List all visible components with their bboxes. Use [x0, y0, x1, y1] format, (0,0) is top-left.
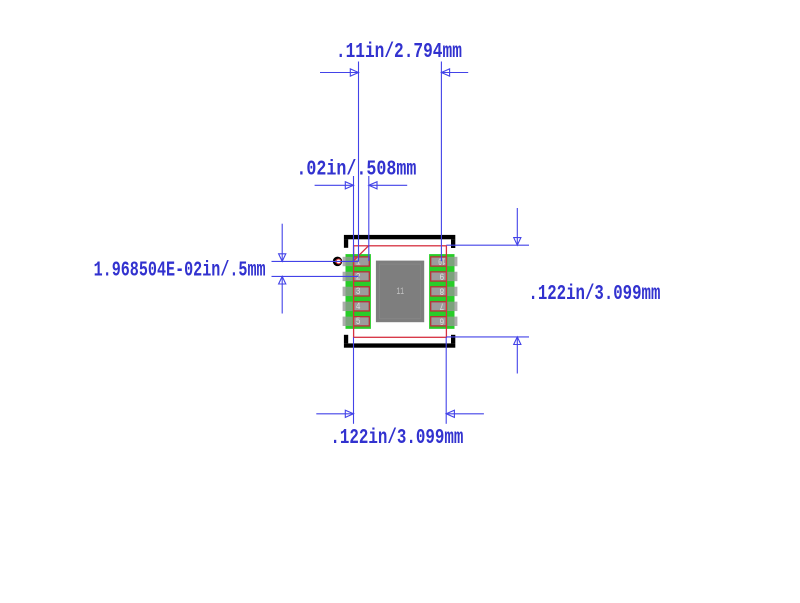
assembly outline top-left stub	[344, 239, 348, 248]
pad 10	[431, 255, 447, 266]
origin marker pin 1	[334, 258, 341, 265]
pad 8	[431, 285, 447, 296]
lead stub pin 4	[343, 302, 353, 311]
dimension pitch: extension line pad 2	[272, 275, 359, 277]
dimension pitch: extension line pad 1	[272, 260, 359, 262]
svg-text:9: 9	[440, 270, 445, 281]
lead stub pin 3	[343, 287, 353, 296]
svg-text:6: 6	[440, 314, 445, 325]
pad 3	[354, 287, 370, 298]
dimension bottom: extension line right	[445, 337, 447, 424]
dimension bottom: arrow line right	[446, 413, 484, 415]
dimension right: arrow upper	[516, 208, 518, 245]
pad 7	[431, 300, 447, 311]
dimension bottom: extension line left	[353, 337, 355, 424]
svg-text:11: 11	[397, 287, 405, 298]
dimension pitch: arrow upper	[281, 224, 283, 262]
pad 1	[354, 257, 370, 268]
lead stub pin 5	[343, 317, 353, 326]
pad 6	[431, 314, 447, 325]
dimension bottom: arrow line left	[316, 413, 353, 415]
assembly outline bottom bar	[344, 343, 455, 347]
dimension pitch: arrow lower	[281, 276, 283, 313]
svg-text:3: 3	[356, 287, 361, 298]
svg-text:.11in/2.794mm: .11in/2.794mm	[336, 40, 462, 64]
lead stub pin 8	[447, 287, 457, 296]
lead stub pin 6	[447, 317, 457, 326]
pad column right (copper)	[429, 254, 454, 329]
assembly outline bottom-left stub	[344, 335, 348, 344]
dimension right: extension line top	[446, 244, 529, 246]
svg-text:1.968504E-02in/.5mm: 1.968504E-02in/.5mm	[94, 259, 266, 283]
pad 2	[354, 272, 370, 283]
svg-text:.122in/3.099mm: .122in/3.099mm	[528, 282, 660, 306]
svg-text:5: 5	[356, 317, 361, 328]
pad 4	[354, 302, 370, 313]
assembly outline top bar	[344, 235, 455, 239]
dimension pad-width: extension line right	[368, 176, 370, 261]
lead stub pin 1	[343, 257, 353, 266]
body outline (red)	[354, 246, 447, 337]
lead stub pin 10	[447, 257, 457, 266]
dimension pad-width: arrow line left	[315, 184, 354, 186]
pad column left (copper)	[346, 254, 371, 329]
svg-text:2: 2	[356, 272, 361, 283]
svg-text:8: 8	[440, 285, 445, 296]
lead stub pin 2	[343, 272, 353, 281]
dimension top: arrow line left	[320, 72, 359, 74]
svg-text:4: 4	[356, 302, 361, 313]
dimension right: extension line bottom	[446, 336, 529, 338]
assembly outline top-right stub	[451, 239, 455, 248]
dimension right: arrow lower	[516, 337, 518, 374]
svg-text:.02in/.508mm: .02in/.508mm	[296, 158, 416, 182]
svg-text:7: 7	[440, 300, 445, 311]
assembly outline bottom-right stub	[451, 335, 455, 344]
lead stub pin 9	[447, 272, 457, 281]
dimension pad-width: arrow line right	[369, 184, 407, 186]
dimension top: arrow line right	[441, 72, 468, 74]
svg-text:.122in/3.099mm: .122in/3.099mm	[330, 426, 463, 450]
dimension pad-width: extension line left	[353, 176, 355, 261]
dimension top: extension line left	[358, 62, 360, 262]
dimension top: extension line right	[440, 62, 442, 262]
pad 5	[354, 317, 370, 328]
lead stub pin 7	[447, 302, 457, 311]
thermal pad 11	[376, 261, 424, 323]
pad 9	[431, 270, 447, 281]
